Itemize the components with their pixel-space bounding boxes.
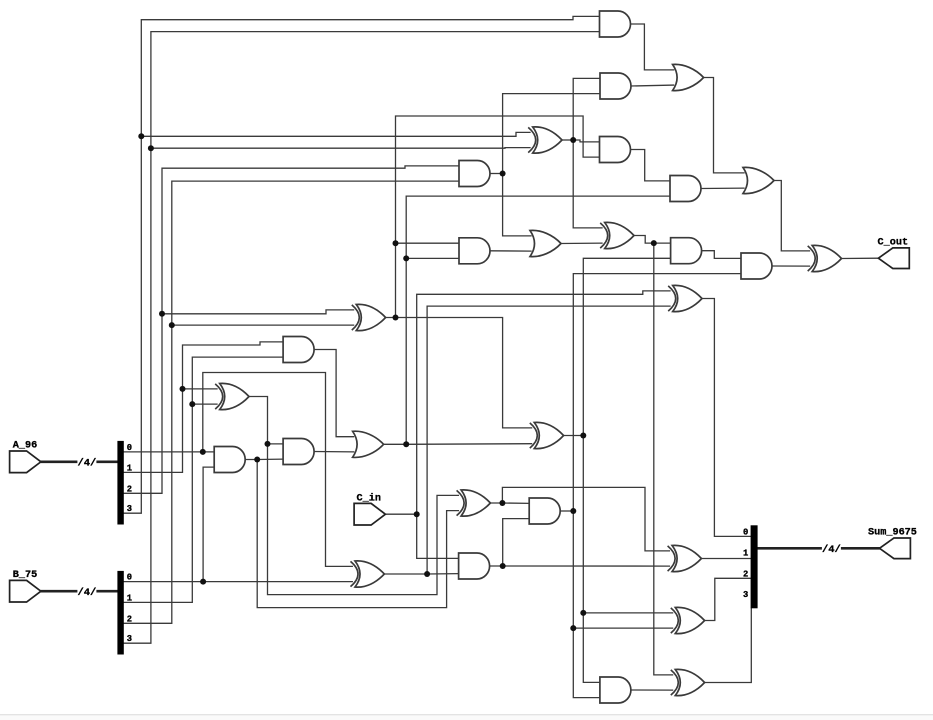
- svg-text:0: 0: [127, 443, 132, 453]
- svg-text:Sum_9675: Sum_9675: [868, 528, 917, 539]
- svg-text:/4/: /4/: [77, 458, 96, 470]
- svg-text:B_75: B_75: [13, 570, 37, 581]
- svg-text:C_in: C_in: [357, 493, 381, 505]
- svg-text:/4/: /4/: [822, 544, 841, 556]
- svg-text:1: 1: [743, 548, 748, 558]
- svg-text:3: 3: [743, 590, 748, 600]
- svg-text:2: 2: [743, 569, 748, 579]
- svg-text:0: 0: [743, 527, 748, 537]
- svg-text:/4/: /4/: [77, 587, 96, 599]
- svg-text:2: 2: [127, 614, 132, 624]
- svg-text:1: 1: [127, 593, 132, 603]
- svg-text:1: 1: [127, 463, 132, 473]
- svg-text:2: 2: [127, 484, 132, 494]
- svg-text:3: 3: [127, 634, 132, 644]
- svg-text:C_out: C_out: [878, 238, 909, 249]
- svg-text:A_96: A_96: [13, 441, 37, 452]
- svg-text:3: 3: [127, 504, 132, 514]
- svg-text:0: 0: [127, 573, 132, 583]
